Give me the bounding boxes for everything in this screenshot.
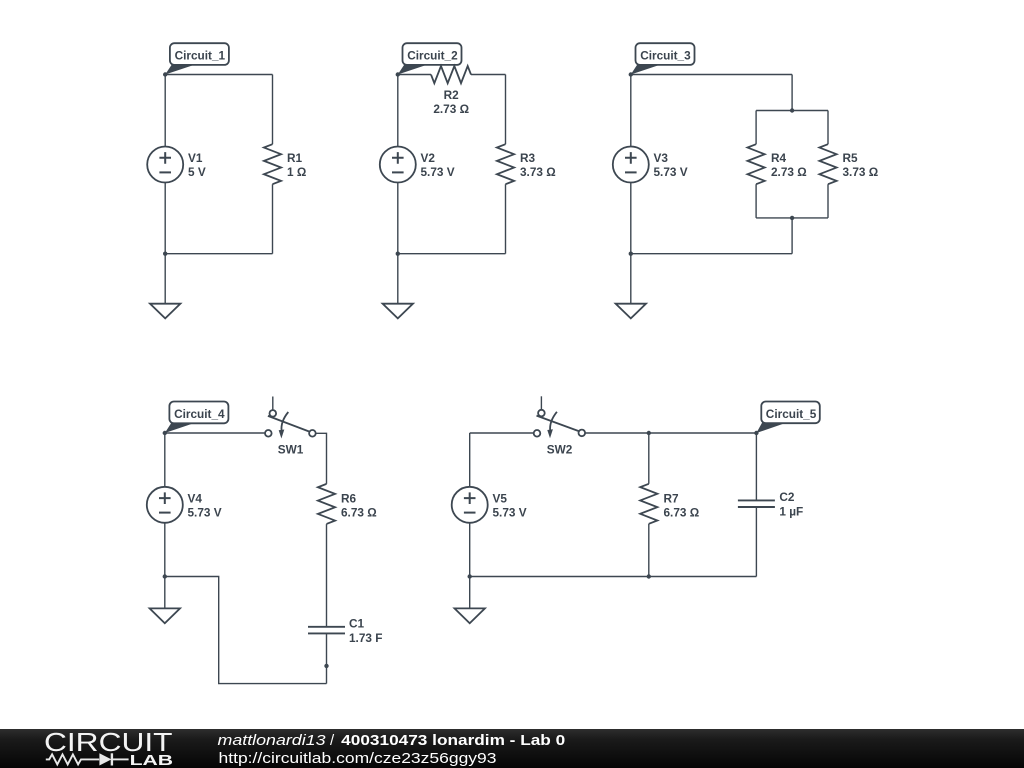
label flag Circuit_3 — [631, 43, 695, 74]
svg-text:SW1: SW1 — [278, 443, 304, 457]
voltage source V5 — [452, 487, 488, 523]
label flag Circuit_5 — [756, 402, 819, 434]
svg-text:6.73 Ω: 6.73 Ω — [341, 506, 377, 520]
label R4 2.73 ohm — [771, 151, 807, 179]
capacitor C1 — [308, 627, 345, 634]
CircuitLab logo diode — [99, 753, 128, 765]
resistor R5 — [819, 144, 836, 184]
node dot circuit 3 top — [629, 72, 633, 76]
ground circuit 2 — [383, 254, 413, 319]
node dot C1 bottom — [324, 664, 328, 668]
wire bottom rail circuit 3 — [631, 253, 792, 255]
node dot circuit 2 top — [396, 72, 400, 76]
banner bar — [0, 729, 1024, 768]
wire top rail left circuit 2 — [398, 74, 431, 76]
resistor R3 — [497, 144, 514, 184]
svg-text:R3: R3 — [520, 151, 536, 165]
svg-text:V2: V2 — [421, 151, 436, 165]
wire R4 top lead — [755, 111, 757, 145]
wire bottom rail circuit 1 — [165, 253, 272, 255]
voltage source V3 — [613, 147, 649, 183]
node dot R7 top — [647, 431, 651, 435]
svg-text:2.73 Ω: 2.73 Ω — [771, 165, 807, 179]
resistor R6 — [318, 484, 335, 524]
wire R7 bottom lead — [648, 524, 650, 577]
wire bottom rail circuit 2 — [398, 253, 506, 255]
wire V5 top lead — [469, 433, 471, 487]
label R1 1 ohm — [287, 151, 306, 179]
label R2 2.73 ohm — [433, 88, 469, 116]
wire R1 top lead — [272, 75, 274, 145]
wire top rail right circuit 2 — [471, 74, 506, 76]
svg-text:Circuit_1: Circuit_1 — [175, 49, 226, 63]
wire R5 top lead — [827, 111, 829, 145]
wire bottom rail circuit 5 — [470, 576, 757, 578]
label V2 5.73 V — [421, 151, 455, 179]
label R7 6.73 ohm — [664, 491, 700, 519]
wire bottom junction drop circuit 3 — [791, 218, 793, 254]
wire V1 bottom lead — [164, 182, 166, 253]
svg-text:1 Ω: 1 Ω — [287, 165, 306, 179]
svg-text:5.73 V: 5.73 V — [493, 506, 527, 520]
wire R4 bottom lead — [755, 184, 757, 218]
wire C2 top lead — [755, 433, 757, 500]
label C2 1 uF — [779, 490, 803, 518]
svg-text:Circuit_2: Circuit_2 — [407, 49, 458, 63]
svg-text:1 µF: 1 µF — [779, 505, 803, 519]
svg-text:5.73 V: 5.73 V — [188, 506, 222, 520]
svg-text:Circuit_3: Circuit_3 — [640, 49, 691, 63]
svg-text:3.73 Ω: 3.73 Ω — [843, 165, 879, 179]
svg-text:6.73 Ω: 6.73 Ω — [664, 506, 700, 520]
ground circuit 5 — [455, 577, 485, 624]
resistor R1 — [264, 144, 281, 184]
label R5 3.73 ohm — [843, 151, 879, 179]
node dot circuit 4 bottom — [163, 574, 167, 578]
svg-text:SW2: SW2 — [547, 443, 573, 457]
svg-text:400310473 lonardim - Lab 0: 400310473 lonardim - Lab 0 — [341, 732, 565, 749]
ground circuit 4 — [150, 577, 180, 624]
voltage source V4 — [147, 487, 183, 523]
svg-text:LAB: LAB — [130, 753, 174, 768]
svg-text:C1: C1 — [349, 617, 365, 631]
wire C1 bottom lead — [326, 633, 328, 683]
wire top rail right circuit 5 — [585, 432, 756, 434]
wire R1 bottom lead — [272, 184, 274, 254]
switch SW1 — [265, 397, 316, 439]
wire top rail circuit 3 — [631, 74, 792, 76]
svg-text:5 V: 5 V — [188, 165, 206, 179]
resistor R4 — [748, 144, 765, 184]
resistor R2 — [431, 66, 471, 83]
wire V4 top lead — [164, 433, 166, 487]
label R3 3.73 ohm — [520, 151, 556, 179]
svg-text:3.73 Ω: 3.73 Ω — [520, 165, 556, 179]
node dot parallel bottom junction — [790, 216, 794, 220]
svg-text:Circuit_4: Circuit_4 — [174, 407, 225, 421]
node dot circuit 5 bottom left — [468, 574, 472, 578]
svg-text:1.73 F: 1.73 F — [349, 631, 382, 645]
wire top rail circuit 1 — [165, 74, 272, 76]
switch SW2 — [534, 396, 585, 438]
wire V4 bottom lead — [164, 523, 166, 577]
svg-text:R1: R1 — [287, 151, 303, 165]
wire V3 bottom lead — [630, 182, 632, 253]
svg-text:R7: R7 — [664, 491, 680, 505]
CircuitLab logo resistor squiggle — [46, 754, 99, 764]
ground circuit 1 — [150, 254, 180, 319]
wire V1 top lead — [164, 75, 166, 147]
svg-text:5.73 V: 5.73 V — [654, 165, 688, 179]
node dot circuit 1 top — [163, 72, 167, 76]
wire R5 bottom lead — [827, 184, 829, 218]
svg-text:R6: R6 — [341, 491, 357, 505]
node dot R7 bottom — [647, 574, 651, 578]
wire V2 top lead — [397, 75, 399, 147]
wire top rail left circuit 5 — [470, 432, 534, 434]
voltage source V1 — [147, 147, 183, 183]
wire R3 bottom lead — [505, 184, 507, 254]
svg-text:V3: V3 — [654, 151, 669, 165]
wire V2 bottom lead — [397, 182, 399, 253]
label V5 5.73 V — [493, 491, 527, 519]
wire V5 bottom lead — [469, 523, 471, 577]
label R6 6.73 ohm — [341, 491, 377, 519]
svg-text:mattlonardi13: mattlonardi13 — [218, 732, 327, 749]
label flag Circuit_4 — [165, 402, 229, 434]
wire R7 top lead — [648, 433, 650, 484]
label V3 5.73 V — [654, 151, 688, 179]
ground circuit 3 — [616, 254, 646, 319]
label V1 5 V — [188, 151, 206, 179]
node dot C2 top — [754, 431, 758, 435]
svg-text:2.73 Ω: 2.73 Ω — [433, 102, 469, 116]
svg-text:V5: V5 — [493, 491, 508, 505]
label V4 5.73 V — [188, 491, 222, 519]
node dot circuit 2 bottom — [396, 252, 400, 256]
wire parallel bottom bar circuit 3 — [756, 217, 828, 219]
svg-text:Circuit_5: Circuit_5 — [766, 407, 817, 421]
label flag Circuit_2 — [398, 43, 462, 74]
label flag Circuit_1 — [165, 43, 229, 74]
svg-text:http://circuitlab.com/cze23z56: http://circuitlab.com/cze23z56ggy93 — [219, 750, 497, 767]
wire SW1 right to R6 top — [316, 433, 327, 484]
wire R6 bottom to C1 top — [326, 524, 328, 627]
node dot circuit 3 bottom — [629, 252, 633, 256]
wire bottom return circuit 4 — [165, 577, 327, 684]
capacitor C2 — [738, 500, 775, 507]
node dot circuit 1 bottom — [163, 252, 167, 256]
node dot parallel top junction — [790, 108, 794, 112]
voltage source V2 — [380, 147, 416, 183]
label C1 1.73 F — [349, 617, 382, 645]
wire V3 top lead — [630, 75, 632, 147]
svg-text:R2: R2 — [444, 88, 460, 102]
wire top junction drop circuit 3 — [791, 75, 793, 111]
wire C2 bottom lead — [755, 507, 757, 577]
wire top rail circuit 4 — [165, 432, 265, 434]
svg-text:R4: R4 — [771, 151, 787, 165]
resistor R7 — [640, 484, 657, 524]
svg-text:V1: V1 — [188, 151, 203, 165]
wire parallel top bar circuit 3 — [756, 110, 828, 112]
wire R3 top lead — [505, 75, 507, 145]
svg-text:5.73 V: 5.73 V — [421, 165, 455, 179]
svg-text:V4: V4 — [188, 491, 203, 505]
svg-text:R5: R5 — [843, 151, 859, 165]
node dot circuit 4 top — [163, 431, 167, 435]
svg-text:C2: C2 — [779, 490, 795, 504]
